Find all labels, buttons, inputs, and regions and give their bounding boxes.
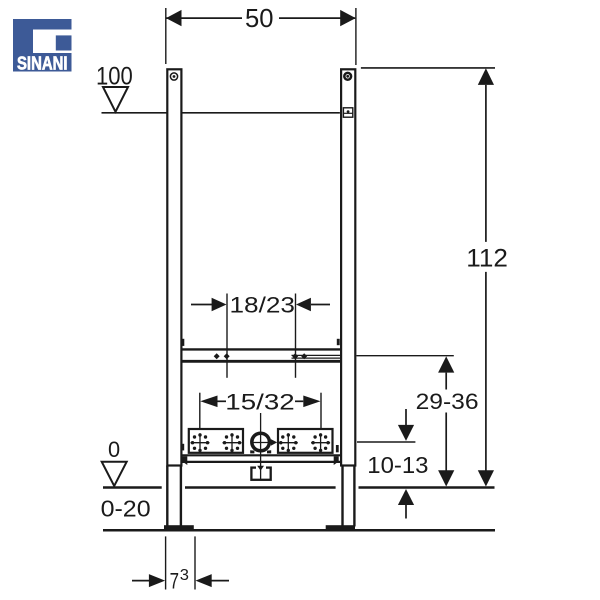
svg-text:29-36: 29-36 bbox=[416, 389, 479, 414]
node drain box bbox=[251, 466, 270, 480]
svg-text:SINANI: SINANI bbox=[17, 53, 68, 73]
node mounting plate bbox=[182, 455, 340, 465]
dimension 15/32 bbox=[200, 390, 321, 428]
node floor line lower bbox=[103, 529, 495, 532]
node drain arrow bbox=[257, 466, 264, 471]
svg-text:10-13: 10-13 bbox=[367, 452, 428, 478]
dimension 112 bbox=[361, 68, 508, 487]
wire left leg bbox=[167, 466, 181, 527]
node crossbar bbox=[182, 349, 341, 361]
node crossbar diamonds bbox=[214, 353, 308, 359]
node drain circle bbox=[250, 433, 277, 453]
dimension 29-36 bbox=[357, 356, 479, 487]
svg-text:18/23: 18/23 bbox=[230, 293, 296, 318]
dimension 50 bbox=[166, 3, 356, 65]
node left block bbox=[189, 429, 243, 453]
node crossbar bolt right bbox=[337, 339, 340, 345]
svg-text:7: 7 bbox=[170, 569, 179, 594]
svg-text:112: 112 bbox=[466, 244, 508, 272]
svg-text:0: 0 bbox=[108, 437, 120, 462]
node 100 marker bbox=[96, 63, 133, 112]
wire right leg bbox=[343, 466, 355, 527]
logo SINANI bbox=[13, 19, 72, 73]
node 0 marker bbox=[102, 437, 127, 486]
node bolt cluster 3 bbox=[279, 433, 298, 452]
node bolt cluster 1 bbox=[191, 433, 210, 452]
node floor line upper bbox=[103, 486, 162, 489]
dimension 18/23 bbox=[191, 293, 330, 378]
node bolt cluster 2 bbox=[223, 433, 242, 452]
node crossbar bolt left bbox=[181, 339, 184, 346]
node bolt cluster 4 bbox=[311, 433, 330, 452]
svg-text:50: 50 bbox=[245, 3, 274, 33]
node rail bolt right lower bbox=[336, 445, 339, 452]
svg-text:3: 3 bbox=[180, 567, 189, 584]
node rail bolt left lower bbox=[181, 444, 184, 451]
node right block bbox=[278, 429, 333, 453]
svg-text:15/32: 15/32 bbox=[225, 390, 294, 415]
dimension 10-13 bbox=[357, 409, 429, 519]
node right rail bbox=[341, 69, 355, 465]
node left rail bbox=[167, 69, 181, 465]
svg-text:0-20: 0-20 bbox=[101, 496, 151, 522]
node 100-level line bbox=[102, 112, 340, 114]
dimension 73 bbox=[132, 536, 229, 593]
wire center line bbox=[260, 413, 262, 480]
node left foot bbox=[164, 525, 194, 530]
node right foot bbox=[326, 525, 355, 530]
